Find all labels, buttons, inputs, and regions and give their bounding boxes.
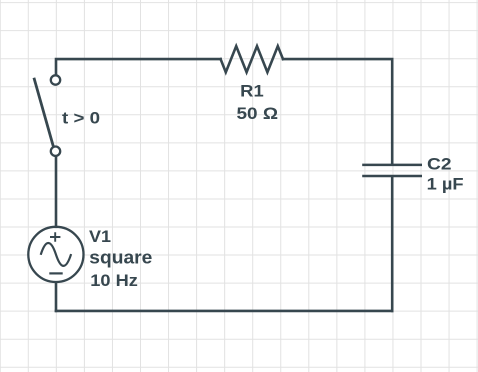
capacitor C2 (362, 165, 422, 176)
voltage source V1 (28, 227, 83, 282)
wire: bottom (56, 310, 392, 313)
svg-text:t > 0: t > 0 (62, 109, 100, 128)
wire: switch to source (55, 157, 58, 227)
svg-text:square: square (89, 247, 152, 268)
resistor R1 (221, 46, 283, 72)
wire: capacitor to bottom-right corner (391, 177, 394, 311)
svg-text:V1: V1 (89, 227, 111, 246)
sine wave (41, 243, 71, 266)
svg-text:C2: C2 (427, 155, 452, 174)
svg-text:10 Hz: 10 Hz (90, 271, 138, 290)
switch top contact (51, 75, 60, 84)
plus sign (50, 232, 60, 241)
wire: switch top stub and top-left wire (56, 59, 221, 74)
switch blade (34, 79, 53, 145)
wire: resistor to capacitor (283, 59, 392, 164)
wire: source bottom to bottom-left corner (55, 282, 58, 311)
svg-text:R1: R1 (240, 81, 264, 100)
minus sign (49, 272, 62, 274)
svg-text:1 µF: 1 µF (427, 175, 464, 194)
svg-text:50 Ω: 50 Ω (237, 104, 279, 123)
switch bottom contact (51, 147, 60, 156)
